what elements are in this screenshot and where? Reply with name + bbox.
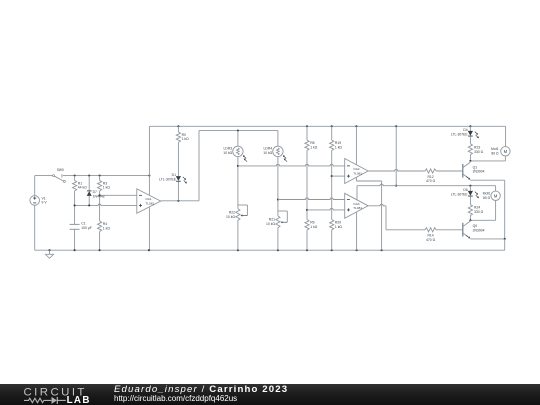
wire LDR3 to OA2 minus bbox=[238, 164, 345, 166]
svg-text:10 kΩ: 10 kΩ bbox=[263, 151, 272, 155]
wire OA2 vplus bbox=[355, 126, 357, 164]
svg-text:2N3904: 2N3904 bbox=[473, 170, 485, 174]
svg-text:470 Ω: 470 Ω bbox=[426, 179, 436, 183]
svg-text:R9: R9 bbox=[310, 220, 314, 224]
diode D7 bbox=[87, 176, 105, 206]
resistor R0 bbox=[176, 126, 189, 176]
svg-text:D4: D4 bbox=[463, 128, 467, 132]
svg-text:Q1: Q1 bbox=[473, 165, 478, 169]
potentiometer R21 bbox=[266, 211, 287, 250]
wire rail2 feed bbox=[198, 131, 200, 201]
wire ref to OA3 plus bbox=[307, 208, 345, 210]
svg-text:R3: R3 bbox=[103, 181, 107, 185]
svg-text:M: M bbox=[504, 149, 508, 154]
transistor Q1 bbox=[462, 161, 485, 180]
motor Mot1 bbox=[491, 147, 510, 156]
svg-text:R23: R23 bbox=[474, 146, 480, 150]
battery V1 bbox=[30, 196, 47, 206]
svg-text:R20: R20 bbox=[335, 220, 341, 224]
resistor R12 bbox=[425, 169, 462, 183]
svg-text:Mot0: Mot0 bbox=[483, 192, 491, 196]
svg-text:330 Ω: 330 Ω bbox=[474, 210, 484, 214]
svg-text:1 kΩ: 1 kΩ bbox=[182, 137, 190, 141]
svg-text:1 kΩ: 1 kΩ bbox=[310, 225, 318, 229]
wire plus input OA1 bbox=[74, 204, 137, 206]
wire mot1 bottom bbox=[469, 156, 505, 162]
wire minus input OA1 bbox=[99, 194, 137, 196]
svg-text:R4: R4 bbox=[103, 222, 107, 226]
ground bbox=[45, 250, 53, 258]
potentiometer R22 bbox=[226, 205, 247, 250]
svg-text:Q0: Q0 bbox=[473, 224, 478, 228]
svg-text:LDR4: LDR4 bbox=[264, 146, 273, 150]
svg-text:1 kΩ: 1 kΩ bbox=[103, 186, 111, 190]
wire vfeed lower bbox=[395, 126, 397, 186]
svg-text:M: M bbox=[494, 193, 498, 198]
svg-text:TL081: TL081 bbox=[353, 206, 362, 210]
wire ref to OA2 plus bbox=[332, 175, 345, 177]
op-amp OA1 bbox=[137, 189, 161, 213]
svg-text:R24: R24 bbox=[474, 205, 480, 209]
wire battery top bbox=[35, 176, 53, 196]
svg-text:100 µF: 100 µF bbox=[81, 226, 92, 230]
svg-text:D1: D1 bbox=[172, 173, 176, 177]
wire OA2 vminus down bbox=[381, 181, 383, 250]
logo CIRCUIT text bbox=[24, 387, 87, 399]
switch SW0 bbox=[53, 168, 66, 182]
footer bar bbox=[0, 384, 540, 405]
svg-text:R8: R8 bbox=[310, 141, 314, 145]
svg-text:OA3: OA3 bbox=[353, 202, 359, 206]
resistor R23 bbox=[468, 136, 483, 161]
svg-text:TL081: TL081 bbox=[145, 202, 154, 206]
svg-text:V1: V1 bbox=[42, 196, 46, 200]
wire mot0 top bbox=[495, 186, 497, 191]
wire OA3 output bbox=[368, 204, 386, 230]
svg-text:10 kΩ: 10 kΩ bbox=[223, 151, 232, 155]
svg-text:R14: R14 bbox=[427, 234, 433, 238]
svg-text:LTL-307EE: LTL-307EE bbox=[451, 133, 469, 137]
svg-text:LAB: LAB bbox=[67, 395, 91, 405]
resistor R4 bbox=[98, 221, 111, 250]
wire supply lower bbox=[357, 184, 496, 200]
op-amp OA2 bbox=[345, 159, 368, 184]
wire battery bottom bbox=[34, 205, 36, 250]
wire OA2 vminus bbox=[356, 178, 381, 181]
capacitor C1 bbox=[70, 205, 92, 250]
wire OA3 vminus bbox=[356, 212, 358, 250]
svg-text:LTL-307EE: LTL-307EE bbox=[451, 193, 469, 197]
svg-text:OA2: OA2 bbox=[353, 167, 359, 171]
svg-text:2N3904: 2N3904 bbox=[473, 229, 485, 233]
svg-text:D6: D6 bbox=[463, 188, 467, 192]
svg-text:44 kΩ: 44 kΩ bbox=[78, 186, 87, 190]
resistor R19 bbox=[330, 126, 343, 219]
LED D6 bbox=[451, 186, 479, 199]
resistor R3 bbox=[98, 176, 111, 221]
footer title line bbox=[114, 384, 288, 395]
svg-text:R1: R1 bbox=[78, 181, 82, 185]
junction dots top wire bbox=[74, 175, 151, 177]
footer url line bbox=[114, 394, 237, 403]
logo squiggle wire bbox=[24, 398, 51, 402]
transistor Q0 bbox=[462, 220, 485, 239]
svg-text:R21: R21 bbox=[269, 217, 275, 221]
svg-text:LTL-307EE: LTL-307EE bbox=[159, 177, 177, 181]
wire mot1 top bbox=[505, 126, 507, 146]
svg-text:9 V: 9 V bbox=[42, 201, 48, 205]
LED D1 bbox=[159, 173, 187, 201]
op-amp OA3 bbox=[345, 193, 368, 218]
motor Mot0 bbox=[483, 191, 501, 200]
svg-text:R22: R22 bbox=[229, 210, 235, 214]
resistor R8 bbox=[305, 126, 318, 219]
wire rail2 bridge bbox=[199, 130, 278, 132]
svg-text:1 kΩ: 1 kΩ bbox=[335, 145, 343, 149]
svg-text:1 kΩ: 1 kΩ bbox=[310, 145, 318, 149]
wire OA2 output bbox=[368, 169, 425, 171]
logo LAB text bbox=[67, 395, 91, 405]
svg-text:R12: R12 bbox=[427, 175, 433, 179]
wire rail +9V bbox=[149, 125, 505, 127]
svg-text:http://circuitlab.com/cfzddpfq: http://circuitlab.com/cfzddpfq462us bbox=[114, 394, 237, 403]
resistor R24 bbox=[468, 196, 483, 220]
svg-text:1 kΩ: 1 kΩ bbox=[103, 226, 111, 230]
svg-text:D7: D7 bbox=[93, 190, 97, 194]
wire OA1 vminus bbox=[148, 207, 150, 250]
photoresistor LDR3 bbox=[223, 131, 247, 209]
logo diode bbox=[52, 397, 66, 404]
wire Q1 emitter bbox=[470, 180, 504, 239]
resistor R9 bbox=[305, 220, 318, 251]
svg-text:470 Ω: 470 Ω bbox=[426, 238, 436, 242]
wire Q0 emitter bbox=[470, 238, 505, 250]
svg-text:R0: R0 bbox=[182, 133, 186, 137]
svg-text:C1: C1 bbox=[81, 222, 85, 226]
resistor R14 bbox=[425, 228, 462, 242]
svg-text:SW0: SW0 bbox=[57, 168, 64, 172]
wire OA1 output bbox=[161, 200, 199, 202]
svg-text:80 Ω: 80 Ω bbox=[483, 196, 491, 200]
wire OA1 vplus bbox=[148, 126, 150, 195]
resistor R20 bbox=[330, 220, 343, 251]
wire OA3 out horizontal bbox=[386, 229, 425, 231]
svg-text:330 Ω: 330 Ω bbox=[474, 150, 484, 154]
wire switch to node bbox=[63, 175, 149, 177]
svg-text:Mot1: Mot1 bbox=[491, 147, 499, 151]
svg-text:1 kΩ: 1 kΩ bbox=[335, 225, 343, 229]
wire mot0 bottom bbox=[469, 201, 495, 222]
svg-text:10 kΩ: 10 kΩ bbox=[226, 215, 235, 219]
svg-text:LDR3: LDR3 bbox=[224, 146, 233, 150]
photoresistor LDR4 bbox=[263, 131, 287, 216]
svg-text:10 kΩ: 10 kΩ bbox=[266, 222, 275, 226]
svg-text:OA1: OA1 bbox=[145, 197, 151, 201]
svg-text:R19: R19 bbox=[335, 141, 341, 145]
svg-text:TL081: TL081 bbox=[353, 171, 362, 175]
svg-text:80 Ω: 80 Ω bbox=[491, 151, 499, 155]
resistor R1 bbox=[73, 176, 88, 206]
wire LDR4 to OA3 minus bbox=[278, 198, 345, 200]
LED D4 bbox=[451, 126, 479, 138]
wire ground rail bbox=[35, 249, 505, 251]
